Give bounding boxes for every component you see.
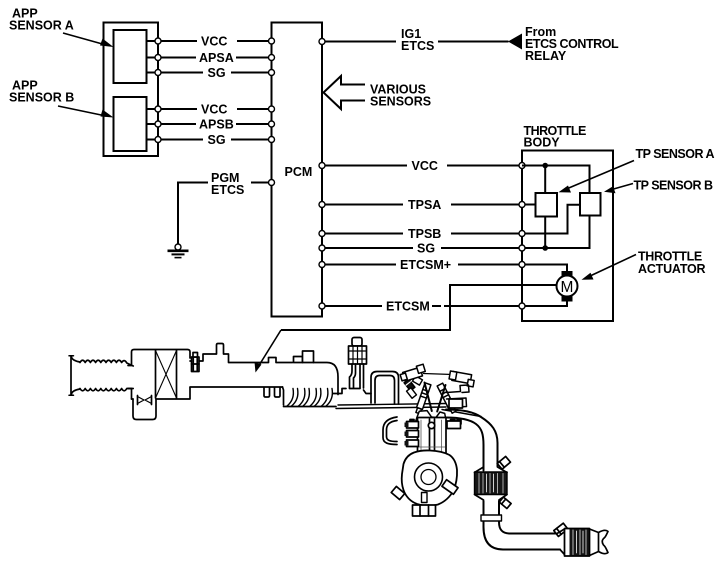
junction dot VCC/TP sensor A [542,163,548,169]
plenum lower pipe to engine [336,404,481,417]
arrowhead from ETCS control relay [508,34,522,50]
loop hose [371,372,399,405]
wire IG1 ETCS [322,27,509,53]
engine block [418,418,447,457]
label THROTTLE ACTUATOR [638,250,706,277]
spark plug left (dark) [404,379,415,390]
air cleaner box [128,350,190,400]
node throttle body edge [519,231,525,237]
label TP SENSOR A [636,147,715,161]
svg-text:TP SENSOR A: TP SENSOR A [636,147,715,161]
PCM box [272,23,323,317]
pipe clamp [481,515,502,521]
tailpipe cone [590,529,609,556]
wire TPSA [322,197,536,212]
APP sensor A box [114,30,147,83]
svg-text:SENSORS: SENSORS [370,95,431,109]
node on PCM edge [269,137,275,143]
svg-text:TPSB: TPSB [408,227,441,241]
node PCM edge [319,262,325,268]
label From ETCS CONTROL RELAY [525,25,619,63]
svg-text:VCC: VCC [201,35,227,49]
node on PCM edge [269,55,275,61]
corrugated intake duct [80,360,133,391]
wire SG (APP A) [147,65,272,80]
TP sensor B box [580,193,601,216]
svg-text:ETCS: ETCS [211,183,244,197]
oxygen sensor 2 [499,497,511,508]
svg-text:TPSA: TPSA [408,198,441,212]
oxygen sensor 1 [497,456,510,469]
catalytic converter 2 [557,529,590,557]
coolant hose left [383,417,397,445]
ground [168,244,189,258]
air intake funnel [69,356,80,395]
svg-text:BODY: BODY [524,136,561,150]
stub bottom right [442,480,458,495]
svg-text:ETCSM+: ETCSM+ [400,258,451,272]
IAT sensor on duct [192,353,200,372]
fuel pressure regulator [349,338,367,389]
node on PCM edge [269,106,275,112]
svg-text:TP SENSOR B: TP SENSOR B [634,179,713,193]
node PCM edge [319,202,325,208]
svg-text:APSB: APSB [199,118,234,132]
oil pan flange [413,493,436,517]
oxygen sensor 3 [554,523,568,536]
leader arrow to throttle actuator [582,255,637,280]
node on PCM edge (PGM ETCS) [269,180,275,186]
node PCM edge [319,163,325,169]
wire PGM ETCS to ground [178,170,272,244]
APP sensor assembly outer box [104,23,159,157]
wire SG (APP B) [147,132,272,147]
node throttle body edge [519,303,525,309]
wire ETCSM+ [322,257,567,272]
air cleaner lower chamber [133,399,156,420]
injector right [437,383,457,413]
injector left [415,383,431,414]
leader arrow to TP sensor A [559,161,635,193]
throttle body box [522,151,613,322]
svg-text:ETCSM: ETCSM [386,300,430,314]
wire APSA [147,50,272,65]
node on PCM right edge (IG1) [319,39,325,45]
SG net inside throttle body [544,217,546,249]
fuel rail line between coils [424,374,453,375]
TP sensor A box [536,193,558,217]
node on sensor box edge [155,55,161,61]
intake manifold runners [284,389,337,407]
exhaust pipe down from cat [484,501,561,550]
wire VCC (APP B) [147,101,272,117]
svg-text:SG: SG [208,133,226,147]
stub right lower [447,421,461,429]
wire VCC (throttle) [322,158,522,173]
stub right upper [449,399,463,408]
stub bottom left [391,486,405,499]
label APP SENSOR A [9,7,74,33]
plug base left [407,388,417,399]
leader arrow to APP sensor B [58,106,114,118]
wire SG (throttle) [322,216,590,256]
throttle actuator motor [557,271,578,302]
svg-text:RELAY: RELAY [525,49,567,63]
engine illustration [69,338,608,557]
svg-text:M: M [561,279,574,296]
label APP SENSOR B [9,79,74,105]
node on PCM edge [269,38,275,44]
node PCM edge [319,245,325,251]
node throttle body edge [519,202,525,208]
node PCM edge [319,303,325,309]
node on PCM edge [269,121,275,127]
valve cover bolts [410,420,461,425]
air cleaner element X pattern [156,351,177,399]
ignition coil right [448,371,475,387]
svg-text:SENSOR B: SENSOR B [9,91,74,105]
leader arrow to TP sensor B [604,184,633,194]
label TP SENSOR B [634,179,713,193]
VARIOUS SENSORS arrow [324,76,366,109]
node on sensor box edge [155,38,161,44]
intake port stubs left [405,422,419,447]
right bracket comb [447,385,470,408]
wire VCC (APP A) [147,33,272,49]
wire ETCSM [322,299,567,314]
node throttle body edge [519,245,525,251]
vent stub on duct [217,344,224,355]
node on sensor box edge [155,106,161,112]
drain valve symbol [138,396,152,405]
exhaust downpipe [446,410,498,471]
node on sensor box edge [155,137,161,143]
transmission bell housing [402,450,457,505]
bracket boxes on duct [294,351,314,363]
coil boot left [413,376,423,385]
intake air duct to throttle body [190,354,338,405]
manifold top steps [333,389,371,394]
svg-text:SG: SG [417,242,435,256]
node on sensor box edge [155,70,161,76]
node PCM edge [319,231,325,237]
ignition coil left [399,364,426,382]
V walls [425,383,446,412]
svg-text:SENSOR A: SENSOR A [9,19,74,33]
APP sensor B box [114,97,147,151]
leader arrow to APP sensor A [63,33,114,47]
junction dot SG/TP sensor A [542,245,548,251]
wire TPSB [322,205,580,241]
leader arrow to engine throttle location [255,330,282,373]
label VARIOUS SENSORS [370,83,431,109]
catalytic converter 1 [475,467,508,500]
wire APSB [147,117,272,132]
node on PCM edge [269,70,275,76]
svg-text:PCM: PCM [285,165,313,179]
svg-text:ACTUATOR: ACTUATOR [638,262,706,276]
VCC net inside throttle body [522,166,590,194]
wire motor left branch [281,285,557,330]
svg-text:VCC: VCC [412,159,438,173]
node throttle body edge [519,163,525,169]
svg-text:ETCS: ETCS [401,39,434,53]
node throttle body edge [519,262,525,268]
support slot under duct [264,388,280,398]
svg-text:VCC: VCC [201,103,227,117]
node on sensor box edge [155,121,161,127]
svg-text:SG: SG [208,66,226,80]
label THROTTLE BODY [524,124,586,150]
svg-text:APSA: APSA [199,51,234,65]
cylinder head [417,411,446,419]
